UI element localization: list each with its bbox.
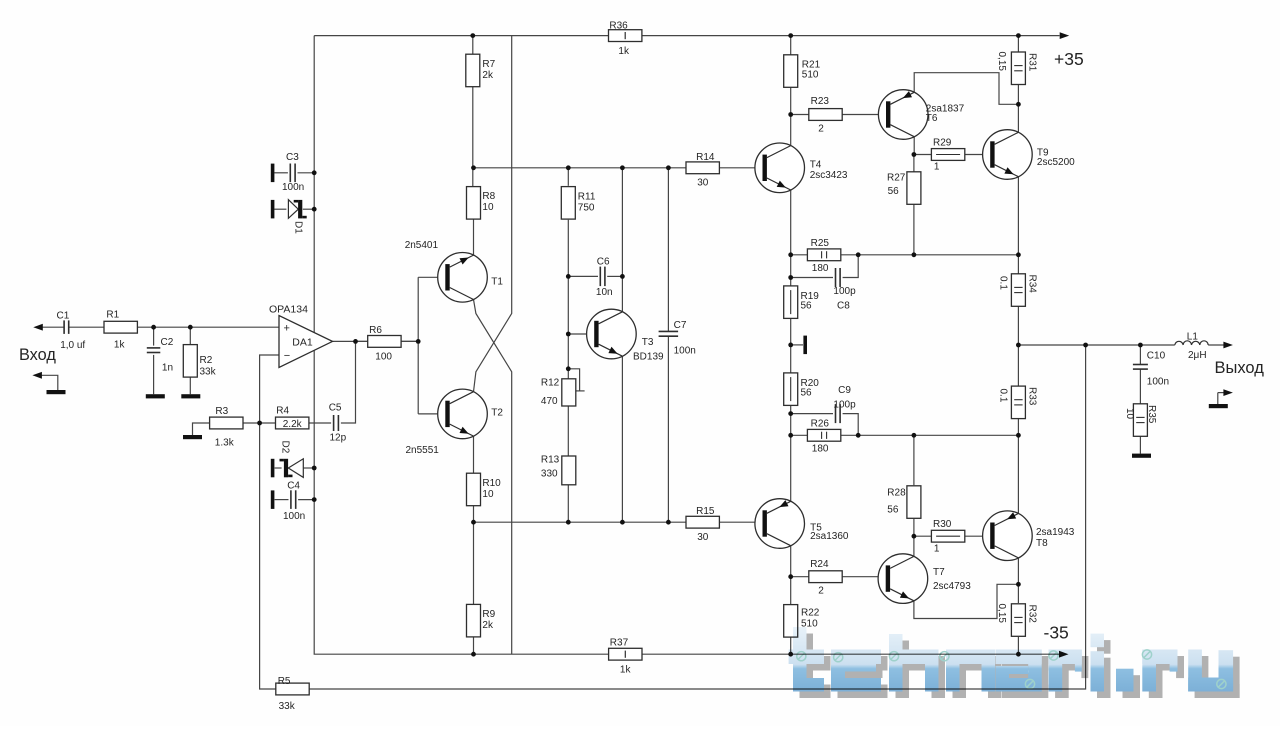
svg-text:0,15: 0,15	[996, 604, 1007, 624]
svg-text:R29: R29	[933, 137, 952, 148]
svg-text:R24: R24	[810, 559, 829, 570]
svg-text:2.2k: 2.2k	[283, 419, 303, 430]
svg-text:R11: R11	[578, 192, 596, 203]
svg-text:1.3k: 1.3k	[215, 438, 235, 449]
svg-text:R26: R26	[811, 419, 830, 430]
svg-text:1k: 1k	[114, 340, 126, 351]
svg-text:R9: R9	[482, 609, 495, 620]
svg-text:510: 510	[802, 69, 819, 80]
svg-text:R30: R30	[933, 519, 952, 530]
svg-text:2sc3423: 2sc3423	[810, 170, 848, 181]
svg-text:C5: C5	[329, 403, 342, 414]
svg-text:56: 56	[887, 505, 899, 516]
svg-text:R25: R25	[811, 238, 830, 249]
svg-text:R34: R34	[1026, 275, 1037, 294]
svg-text:C1: C1	[57, 310, 70, 321]
svg-text:0.1: 0.1	[998, 276, 1009, 290]
svg-text:1: 1	[934, 544, 940, 555]
svg-text:56: 56	[888, 186, 900, 197]
svg-text:750: 750	[578, 203, 595, 214]
svg-text:R28: R28	[887, 488, 906, 499]
svg-text:−: −	[284, 350, 290, 362]
svg-text:2: 2	[818, 123, 824, 134]
svg-text:10: 10	[482, 489, 494, 500]
svg-text:0.1: 0.1	[998, 389, 1009, 403]
svg-text:T3: T3	[642, 337, 654, 348]
svg-text:30: 30	[697, 532, 709, 543]
svg-text:470: 470	[541, 396, 558, 407]
svg-text:R2: R2	[200, 355, 213, 366]
svg-text:56: 56	[801, 300, 813, 311]
svg-text:R23: R23	[811, 96, 830, 107]
svg-text:0,15: 0,15	[996, 52, 1007, 72]
svg-text:1: 1	[934, 162, 940, 173]
svg-text:100n: 100n	[283, 511, 305, 522]
svg-text:T6: T6	[926, 113, 938, 124]
svg-text:Выход: Выход	[1215, 359, 1265, 377]
svg-text:1k: 1k	[618, 46, 630, 57]
svg-text:C6: C6	[597, 256, 610, 267]
svg-text:10: 10	[1124, 408, 1135, 420]
svg-text:T2: T2	[491, 408, 503, 419]
svg-text:T7: T7	[933, 567, 945, 578]
svg-text:2n5401: 2n5401	[405, 240, 439, 251]
svg-text:2k: 2k	[482, 620, 494, 631]
svg-text:R37: R37	[610, 637, 629, 648]
svg-text:2sa1360: 2sa1360	[810, 531, 849, 542]
svg-text:100n: 100n	[1147, 377, 1169, 388]
svg-text:R1: R1	[106, 310, 119, 321]
svg-text:180: 180	[812, 444, 829, 455]
svg-text:C3: C3	[286, 152, 299, 163]
svg-text:C2: C2	[161, 337, 174, 348]
svg-text:R33: R33	[1026, 387, 1037, 406]
svg-text:2sa1943: 2sa1943	[1036, 527, 1075, 538]
svg-text:30: 30	[697, 177, 709, 188]
svg-text:2k: 2k	[482, 70, 494, 81]
svg-text:1k: 1k	[620, 665, 632, 676]
svg-text:100n: 100n	[674, 345, 696, 356]
svg-text:OPA134: OPA134	[269, 303, 308, 315]
svg-text:R32: R32	[1026, 605, 1037, 624]
svg-text:2μH: 2μH	[1188, 350, 1207, 361]
svg-text:10n: 10n	[596, 287, 613, 298]
svg-text:C7: C7	[674, 320, 687, 331]
svg-text:10: 10	[482, 202, 494, 213]
svg-text:C10: C10	[1147, 351, 1166, 362]
svg-text:D2: D2	[280, 441, 291, 454]
svg-text:12p: 12p	[330, 433, 347, 444]
svg-text:2sc4793: 2sc4793	[933, 581, 971, 592]
svg-text:C8: C8	[837, 301, 850, 312]
svg-text:T8: T8	[1036, 538, 1048, 549]
svg-text:-35: -35	[1044, 623, 1069, 643]
svg-text:100: 100	[375, 352, 392, 363]
svg-text:33k: 33k	[279, 701, 296, 712]
svg-text:Вход: Вход	[19, 346, 56, 364]
svg-text:T1: T1	[491, 276, 503, 287]
svg-text:2n5551: 2n5551	[406, 445, 440, 456]
svg-text:T4: T4	[810, 159, 822, 170]
svg-text:+35: +35	[1054, 49, 1084, 69]
svg-text:R5: R5	[278, 676, 291, 687]
svg-text:R6: R6	[369, 325, 382, 336]
svg-text:1,0 uf: 1,0 uf	[60, 340, 85, 351]
svg-text:R12: R12	[541, 377, 560, 388]
svg-text:100n: 100n	[282, 182, 304, 193]
svg-text:D1: D1	[293, 221, 304, 234]
svg-text:R22: R22	[801, 607, 820, 618]
svg-text:R4: R4	[276, 406, 289, 417]
svg-text:33k: 33k	[200, 367, 217, 378]
svg-text:R31: R31	[1026, 53, 1037, 72]
svg-text:1n: 1n	[162, 363, 173, 374]
svg-text:R14: R14	[696, 152, 715, 163]
svg-text:R36: R36	[609, 20, 628, 31]
svg-text:DA1: DA1	[292, 336, 313, 348]
svg-text:100p: 100p	[833, 286, 856, 297]
svg-text:100p: 100p	[833, 400, 856, 411]
svg-text:R15: R15	[696, 506, 715, 517]
svg-text:180: 180	[812, 263, 829, 274]
svg-text:C9: C9	[838, 385, 851, 396]
svg-text:R13: R13	[541, 455, 560, 466]
svg-text:+: +	[284, 322, 290, 334]
svg-text:R8: R8	[482, 191, 495, 202]
svg-text:R27: R27	[887, 172, 906, 183]
svg-text:R10: R10	[482, 478, 501, 489]
svg-text:330: 330	[541, 468, 558, 479]
svg-text:R3: R3	[215, 406, 228, 417]
svg-text:BD139: BD139	[633, 352, 664, 363]
svg-text:56: 56	[801, 387, 813, 398]
svg-text:R35: R35	[1146, 405, 1157, 424]
svg-text:C4: C4	[287, 481, 300, 492]
svg-text:R7: R7	[482, 59, 495, 70]
svg-text:2sc5200: 2sc5200	[1037, 157, 1075, 168]
svg-text:2: 2	[818, 586, 824, 597]
